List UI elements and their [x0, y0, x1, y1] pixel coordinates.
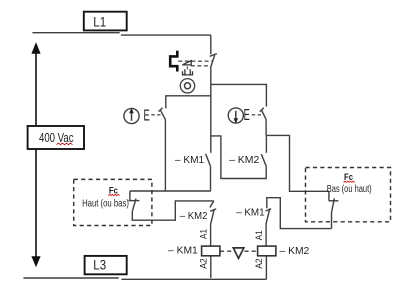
- limit switch box Fc haut dashed: [74, 179, 152, 225]
- wire KM2 NC bottom to coil KM1: [210, 225, 212, 246]
- limit switch Fc bas blade: [332, 198, 335, 212]
- pushbutton E up circle indicator: [124, 108, 139, 123]
- limit switch Fc bas bar: [329, 200, 339, 202]
- coil KM2: [258, 246, 276, 256]
- contactor KM1 aux contact blade: [206, 154, 211, 167]
- contactor KM2 aux contact blade: [261, 154, 266, 166]
- svg-text:Haut (ou bas): Haut (ou bas): [82, 198, 129, 209]
- emergency stop linkage dashed lower: [191, 65, 210, 67]
- wire coil KM1 bottom to L3 bus: [210, 256, 212, 278]
- wire Fc bas bottom terminal: [331, 212, 333, 228]
- svg-text:– KM2: – KM2: [180, 211, 208, 222]
- voltage arrow double-headed: [31, 42, 40, 267]
- emergency stop S0 contact blade: [211, 55, 215, 66]
- wire Fc haut bottom to KM2 NC interlock: [132, 201, 214, 220]
- interlock KM2 NC contact blade: [210, 209, 214, 225]
- svg-text:E: E: [244, 107, 250, 124]
- coil KM1: [202, 246, 220, 256]
- wire KM1 aux bottom to node N1: [210, 166, 212, 191]
- interlock KM2 NC contact lead: [210, 201, 214, 208]
- wire node B to right Fc feed: [266, 135, 329, 191]
- svg-text:Bas (ou haut): Bas (ou haut): [327, 184, 372, 195]
- wire right Fc bottom link to KM1 NC interlock: [267, 198, 332, 229]
- svg-text:A2: A2: [198, 258, 208, 269]
- svg-text:– KM2: – KM2: [229, 155, 260, 166]
- emergency stop detent symbol: [183, 69, 193, 75]
- pushbutton E down dashes: [252, 114, 262, 116]
- wire KM1 NC bottom to coil KM2: [265, 224, 267, 246]
- svg-text:– KM1: – KM1: [175, 155, 205, 166]
- wire node A to left E button branch: [166, 96, 211, 109]
- svg-text:E: E: [144, 108, 150, 125]
- interlock KM1 NC contact bar: [266, 209, 272, 211]
- spellcheck squiggle under Vac: [57, 143, 73, 145]
- svg-text:400 Vac: 400 Vac: [39, 131, 74, 145]
- mechanical interlock dashed line: [220, 250, 258, 252]
- emergency stop latch link dash: [186, 66, 188, 69]
- svg-text:A2: A2: [254, 258, 264, 269]
- pushbutton E down contact blade: [262, 110, 267, 119]
- pushbutton E up dashes: [151, 114, 161, 116]
- svg-text:– KM1: – KM1: [168, 246, 198, 257]
- wire main vertical from L1 to e-stop contact: [210, 35, 212, 54]
- wire E up bottom terminal: [164, 120, 166, 191]
- emergency stop latch flag: [182, 61, 191, 65]
- label box L1: [84, 12, 127, 31]
- emergency stop linkage dashed upper: [178, 60, 212, 62]
- wire E down bottom terminal to node B: [265, 119, 267, 135]
- emergency stop S0 contact tick: [210, 54, 217, 57]
- pushbutton E up contact blade: [161, 110, 166, 119]
- interlock KM2 NC contact bar: [210, 209, 216, 211]
- contactor KM2 aux contact top terminal: [265, 135, 267, 152]
- wire node N1 horizontal to Fc haut: [130, 190, 211, 192]
- wire L3 bus left segment: [23, 277, 118, 279]
- svg-text:A1: A1: [198, 229, 208, 239]
- limit switch Fc haut bar: [128, 200, 139, 202]
- limit switch Fc haut blade: [132, 199, 136, 212]
- wire node A to right branch top: [211, 84, 267, 106]
- mechanical interlock triangle: [233, 248, 244, 259]
- limit switch box Fc bas dashed: [306, 168, 391, 222]
- svg-text:L1: L1: [93, 14, 106, 30]
- wire coil KM2 bottom to L3 bus: [265, 256, 267, 279]
- wire L3 bus right segment: [121, 278, 266, 280]
- wire L1 bus right segment: [121, 34, 211, 36]
- emergency stop turn-to-release symbol: [180, 79, 194, 93]
- wire L1 bus left segment: [32, 32, 119, 34]
- svg-text:– KM1: – KM1: [236, 208, 265, 219]
- wire KM2 aux bottom U link to node A: [211, 136, 266, 179]
- limit switch Fc bas top terminal: [328, 191, 330, 201]
- pushbutton E down contact tick: [260, 108, 264, 112]
- interlock KM1 NC contact blade: [266, 208, 270, 224]
- svg-text:A1: A1: [254, 230, 264, 240]
- wire main vertical below e-stop to node A: [210, 66, 212, 153]
- label box L3: [85, 256, 127, 274]
- label box 400 Vac: [28, 126, 84, 149]
- svg-text:– KM2: – KM2: [280, 246, 310, 257]
- svg-text:L3: L3: [93, 256, 106, 272]
- limit switch Fc haut top terminal: [129, 191, 131, 201]
- pushbutton E down circle indicator: [228, 108, 243, 123]
- emergency stop mushroom actuator: [170, 51, 177, 72]
- pushbutton E up contact tick: [159, 108, 163, 112]
